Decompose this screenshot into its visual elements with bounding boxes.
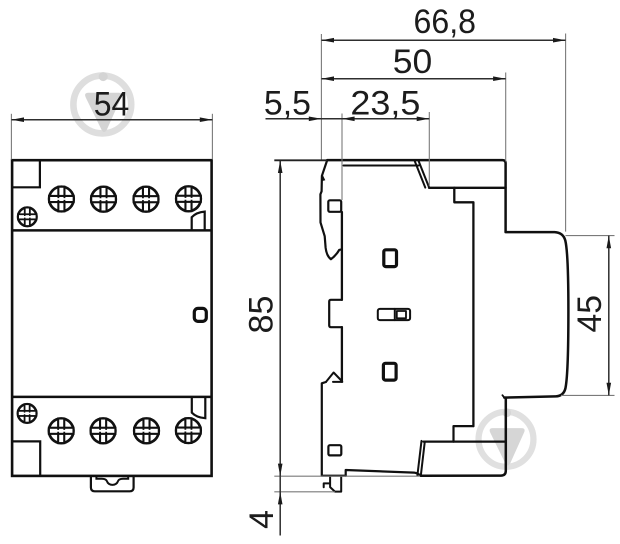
clip window square <box>328 445 341 455</box>
SIDE VIEW <box>320 160 568 492</box>
top terminal band bottom line <box>12 229 212 232</box>
terminal screw B4 <box>176 418 201 443</box>
terminal screw T1 <box>49 187 74 212</box>
terminal screw B3 <box>134 419 159 444</box>
spring clip left edge <box>322 382 346 476</box>
terminal screw B2 <box>91 419 116 444</box>
lower right edge and bottom plate <box>421 398 506 476</box>
internal horizontal seam above foot <box>424 441 506 443</box>
elongated latch detail <box>378 309 410 320</box>
tick at bulge bottom-left <box>502 395 504 397</box>
bottom band lever flag <box>192 397 206 418</box>
svg-text:5,5: 5,5 <box>264 85 311 123</box>
watermark logo 2 <box>479 409 534 467</box>
dim line 5,5 / 23,5 <box>266 118 430 120</box>
svg-text:66,8: 66,8 <box>414 3 477 41</box>
horizontal seam line B <box>429 187 506 189</box>
bottom-left corner step <box>12 441 40 476</box>
dim line 54 <box>11 119 212 121</box>
dim line 66,8 <box>321 39 565 41</box>
claw window square <box>328 200 341 212</box>
svg-text:50: 50 <box>393 43 433 81</box>
extension lines <box>10 114 12 160</box>
terminal screw B1 <box>49 419 74 444</box>
bottom terminal band top line <box>12 396 212 399</box>
lower marker square <box>383 363 396 380</box>
front view body outline <box>12 160 212 476</box>
middle indicator square <box>194 308 206 321</box>
svg-text:54: 54 <box>94 85 130 123</box>
lid seam horizontal <box>344 165 419 167</box>
terminal screw T3 <box>134 187 159 212</box>
top-left corner step <box>12 160 40 187</box>
dim line 4 <box>279 476 281 535</box>
svg-text:85: 85 <box>243 296 281 334</box>
spring clip top tab <box>326 373 342 383</box>
upper marker square <box>384 250 397 267</box>
small screw bottom <box>18 404 37 423</box>
arrowheads <box>11 117 24 122</box>
coil bulge outline <box>504 232 568 398</box>
body bottom edge <box>346 470 421 476</box>
din channel wall lower <box>341 327 343 382</box>
85 top extension <box>274 159 327 161</box>
dim line 85 <box>279 160 281 476</box>
dim line 45 <box>608 236 610 396</box>
top band lever flag <box>192 212 205 231</box>
terminal screw T4 <box>176 187 201 212</box>
DIN clip at bottom of front view <box>91 476 134 491</box>
svg-text:45: 45 <box>571 295 609 333</box>
cover seam diagonals <box>415 161 430 188</box>
internal step under front face <box>454 426 474 442</box>
rail notch <box>329 300 342 327</box>
FRONT VIEW <box>12 160 212 476</box>
claw tip wedge <box>321 174 325 181</box>
din channel wall upper <box>341 212 343 300</box>
clip bottom tab <box>324 476 342 492</box>
small screw top <box>18 208 37 227</box>
terminal screw T2 <box>91 187 116 212</box>
dim line 50 <box>321 78 505 80</box>
svg-text:23,5: 23,5 <box>350 85 420 123</box>
back top claw profile <box>320 160 342 259</box>
svg-text:4: 4 <box>243 510 281 529</box>
foot rib diagonals <box>417 441 424 476</box>
top edge + right upper edge <box>327 160 505 232</box>
watermark logo 1 <box>73 72 131 133</box>
front face vertical <box>454 188 473 426</box>
